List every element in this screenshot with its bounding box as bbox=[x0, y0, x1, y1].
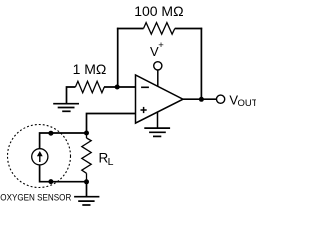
wire RL to ground bbox=[86, 182, 88, 197]
svg-text:L: L bbox=[108, 156, 114, 168]
wire V+ lead bbox=[157, 70, 159, 86]
node: RL top dot bbox=[84, 131, 89, 136]
op-amp plus symbol bbox=[141, 107, 147, 113]
svg-text:100 MΩ: 100 MΩ bbox=[134, 3, 183, 19]
current source I1 circle bbox=[32, 149, 48, 165]
resistor RF 100 MOhm (feedback) bbox=[144, 23, 175, 35]
current source arrow bbox=[39, 155, 41, 163]
wire output bbox=[183, 98, 216, 100]
svg-text:1 MΩ: 1 MΩ bbox=[73, 61, 107, 77]
resistor R1 1 MOhm bbox=[75, 81, 104, 92]
op-amp minus symbol bbox=[141, 86, 149, 88]
node: junction dot at inverting input bbox=[115, 85, 120, 90]
wire feedback top-right segment bbox=[175, 28, 202, 30]
wire op-amp ground lead bbox=[157, 112, 159, 128]
svg-text:+: + bbox=[158, 40, 164, 51]
ground G3 (under RL) bbox=[74, 197, 99, 205]
terminal V+ circle bbox=[154, 62, 162, 70]
ground G2 (under op-amp) bbox=[144, 128, 170, 136]
wire feedback top-left segment bbox=[117, 28, 144, 30]
wire 1M left stub bbox=[67, 87, 76, 103]
ground G1 (left of 1M) bbox=[53, 104, 79, 112]
node: junction dot at output bbox=[199, 97, 204, 102]
terminal VOUT circle bbox=[217, 95, 225, 103]
op-amp U1 triangle bbox=[136, 75, 184, 123]
wire inverting input bbox=[104, 86, 136, 88]
wire non-inverting input bbox=[87, 114, 136, 134]
svg-text:OUT: OUT bbox=[238, 98, 257, 109]
sensor boundary: dashed circle bbox=[8, 125, 71, 188]
wire feedback left vertical bbox=[117, 28, 119, 87]
node: RL bottom dot bbox=[84, 179, 89, 184]
node: sensor terminal dot bottom bbox=[48, 179, 53, 184]
wire sensor bottom lead bbox=[40, 165, 87, 182]
wire sensor top lead bbox=[40, 133, 87, 149]
wire feedback right vertical bbox=[200, 28, 202, 100]
svg-text:OXYGEN SENSOR: OXYGEN SENSOR bbox=[0, 193, 71, 204]
node: sensor terminal dot top bbox=[48, 131, 53, 136]
resistor RL bbox=[82, 133, 91, 182]
